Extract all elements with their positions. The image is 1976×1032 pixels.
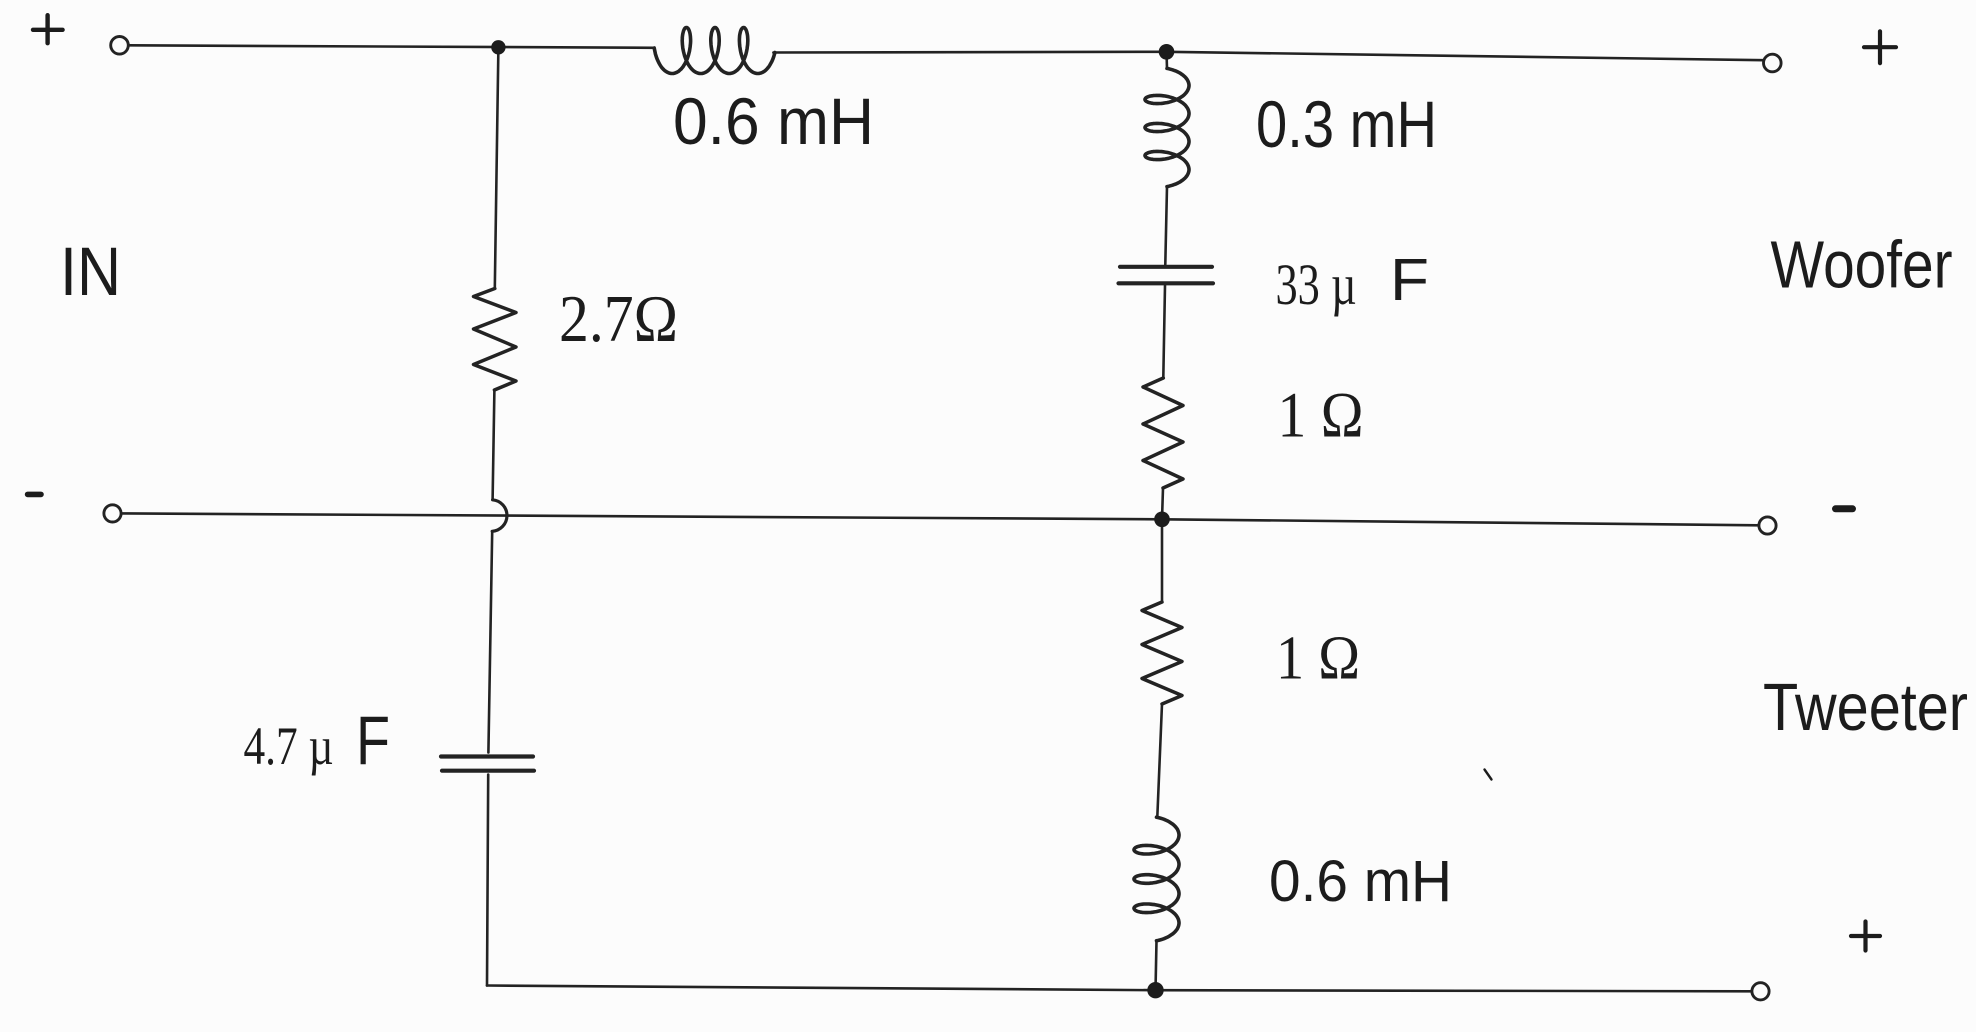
capacitor C1 4.7 uF plates <box>441 757 534 771</box>
svg-text:1 Ω: 1 Ω <box>1276 625 1360 693</box>
svg-text:F: F <box>1390 247 1429 313</box>
svg-text:F: F <box>356 702 390 779</box>
resistor R1 2.7 ohm <box>474 289 517 391</box>
svg-text:Tweeter: Tweeter <box>1763 670 1968 745</box>
inductor L2 0.3 mH (vertical coil) <box>1145 68 1189 186</box>
polarity + at Tweeter bottom right <box>1851 922 1880 951</box>
svg-text:Woofer: Woofer <box>1771 228 1953 303</box>
polarity - at IN bottom left <box>28 492 41 498</box>
wire from node B into inductor L2 <box>1165 52 1168 69</box>
inductor L1 0.6 mH (top horizontal coil) <box>654 28 775 74</box>
wire middle rail from IN- terminal to Woofer - terminal <box>122 513 1759 525</box>
svg-text:2.7Ω: 2.7Ω <box>559 282 678 356</box>
svg-text:1 Ω: 1 Ω <box>1278 380 1364 452</box>
wire from L3 to node D on bottom rail <box>1156 941 1157 990</box>
wire hop (no connection) over middle rail <box>492 500 507 532</box>
wire from R1 down to crossover hop <box>493 390 495 500</box>
svg-text:0.6 mH: 0.6 mH <box>1269 849 1452 914</box>
terminal Woofer - (open circle) <box>1759 517 1776 534</box>
svg-text:0.6 mH: 0.6 mH <box>673 84 874 158</box>
polarity + at IN top left <box>33 15 63 43</box>
node D junction dot <box>1147 982 1163 998</box>
svg-text:33 µ: 33 µ <box>1276 252 1357 317</box>
stray scan tick <box>1485 770 1492 780</box>
terminal Tweeter + (open circle) <box>1752 983 1769 1000</box>
wire from R3 down to inductor L3 <box>1157 704 1162 817</box>
svg-text:0.3 mH: 0.3 mH <box>1256 87 1437 161</box>
resistor R2 1 ohm (woofer branch) <box>1143 378 1183 488</box>
svg-text:IN: IN <box>60 233 121 310</box>
wire top from L1 to node B and to Woofer + terminal <box>773 52 1763 60</box>
inductor L3 0.6 mH (vertical coil, tweeter branch) <box>1134 817 1179 941</box>
wire from R2 to node C on middle rail <box>1162 488 1163 519</box>
wire from hop down to capacitor C1 <box>488 531 492 752</box>
svg-text:4.7 µ: 4.7 µ <box>244 716 334 776</box>
terminal Woofer + (open circle) <box>1764 54 1782 72</box>
node B junction dot <box>1159 44 1175 60</box>
node C junction dot <box>1154 512 1170 528</box>
wire from L2 to capacitor C2 <box>1165 187 1167 265</box>
terminal IN + (open circle) <box>111 37 129 55</box>
wire bottom rail to node D and Tweeter + terminal <box>487 986 1752 992</box>
polarity + at Woofer top right <box>1864 31 1896 63</box>
wire from node C down to resistor R3 <box>1161 519 1164 602</box>
wire top-left from IN+ terminal to node A <box>129 45 655 48</box>
polarity - at Woofer right <box>1836 505 1853 512</box>
wire from C2 down to resistor R2 <box>1163 286 1165 379</box>
wire left branch from node A down to resistor R1 <box>495 47 499 288</box>
node A junction dot <box>491 40 505 54</box>
capacitor C2 33 uF plates <box>1119 267 1214 284</box>
resistor R3 1 ohm (tweeter branch) <box>1142 602 1182 704</box>
terminal IN - (open circle) <box>104 505 121 522</box>
wire from C1 down to bottom rail corner <box>487 775 488 986</box>
